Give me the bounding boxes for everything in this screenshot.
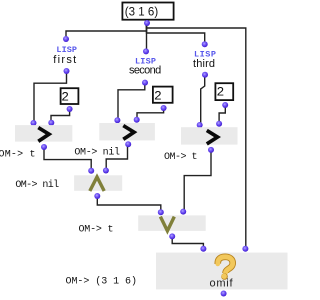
number box 2c bbox=[215, 83, 233, 100]
or box: inlet nodes bbox=[158, 209, 186, 216]
greater2 box body bbox=[99, 123, 155, 140]
wire: and output to or left inlet bbox=[97, 199, 161, 211]
lisp function third: input node bbox=[202, 41, 208, 47]
wire: greater2 output to and right inlet bbox=[106, 147, 127, 169]
value box (3 1 6) bbox=[122, 3, 173, 20]
wire: greater3 output to or right inlet bbox=[184, 153, 211, 210]
svg-text:first: first bbox=[53, 54, 76, 66]
wire: number 2b to greater2 right inlet bbox=[137, 111, 164, 118]
or box: output node bbox=[169, 233, 175, 239]
number box 2a: output node bbox=[67, 106, 73, 112]
greater2 box: output node bbox=[125, 141, 131, 147]
wire: top node to omif right inlet bbox=[147, 25, 246, 247]
svg-text:2: 2 bbox=[154, 89, 162, 104]
and box body bbox=[74, 175, 122, 191]
svg-text:third: third bbox=[193, 58, 215, 70]
greater2 box: inlet nodes bbox=[114, 117, 139, 123]
wire: first output to greater1 left inlet bbox=[34, 73, 67, 121]
wire: greater1 output to and left inlet bbox=[44, 150, 91, 169]
greater1 box: output node bbox=[41, 144, 47, 150]
lisp function first: output node bbox=[64, 68, 70, 74]
wire: top node to LISP second bbox=[146, 25, 148, 49]
omif box: inlet nodes bbox=[200, 246, 248, 252]
and box: inlet nodes bbox=[88, 168, 109, 174]
svg-text:OM-> t: OM-> t bbox=[79, 225, 114, 236]
lisp function first: icon and name bbox=[53, 45, 77, 66]
greater3 box: inlet nodes bbox=[197, 121, 222, 128]
wire: third output to greater3 left inlet bbox=[201, 77, 205, 123]
svg-text:OM-> nil: OM-> nil bbox=[74, 147, 120, 159]
svg-text:OM-> (3 1 6): OM-> (3 1 6) bbox=[66, 276, 138, 288]
or box body bbox=[138, 215, 206, 231]
wire: top node to LISP first bbox=[66, 25, 147, 37]
label OM-> t for or box bbox=[79, 225, 114, 236]
lisp function third: icon and name bbox=[193, 50, 216, 70]
greater1 box: inlet nodes bbox=[31, 120, 55, 126]
number box 2b: output node bbox=[161, 105, 167, 111]
wire: top node to LISP third bbox=[147, 25, 205, 42]
svg-text:(3 1 6): (3 1 6) bbox=[125, 7, 159, 19]
greater3 box body bbox=[181, 127, 238, 144]
greater1 box body bbox=[15, 125, 72, 142]
lisp function second: input node bbox=[143, 48, 149, 54]
svg-text:2: 2 bbox=[217, 84, 225, 99]
wire: number 2c to greater3 right inlet bbox=[219, 108, 225, 122]
label OM-> nil for and box bbox=[15, 179, 59, 191]
number box 2a bbox=[61, 88, 79, 104]
omif box body bbox=[156, 253, 288, 290]
svg-text:omif: omif bbox=[210, 278, 234, 290]
lisp function first: input node bbox=[63, 36, 69, 42]
wire: number 2a to greater1 right inlet bbox=[51, 111, 70, 121]
and box: output node bbox=[94, 193, 100, 199]
label OM-> t for greater3 bbox=[164, 152, 198, 163]
number box 2b bbox=[153, 87, 173, 104]
omif box: output node bbox=[221, 291, 227, 297]
svg-text:OM-> t: OM-> t bbox=[164, 152, 198, 163]
number box 2c: output node bbox=[222, 102, 228, 108]
wire: or output to omif left inlet bbox=[172, 239, 203, 247]
svg-text:second: second bbox=[129, 65, 161, 77]
greater3 box: output node bbox=[208, 147, 214, 153]
svg-text:OM-> t: OM-> t bbox=[0, 150, 36, 161]
label OM-> (3 1 6) for omif bbox=[66, 276, 138, 288]
node: value box output bbox=[144, 20, 150, 26]
svg-text:OM-> nil: OM-> nil bbox=[15, 179, 59, 191]
wire: second output to greater2 left inlet bbox=[118, 85, 145, 118]
label OM-> nil for greater2 bbox=[74, 147, 120, 159]
lisp function third: output node bbox=[202, 72, 208, 78]
lisp function second: output node bbox=[142, 80, 148, 86]
svg-text:2: 2 bbox=[61, 89, 69, 104]
label OM-> t for greater1 bbox=[0, 150, 36, 161]
lisp function second: icon and name bbox=[129, 56, 161, 76]
